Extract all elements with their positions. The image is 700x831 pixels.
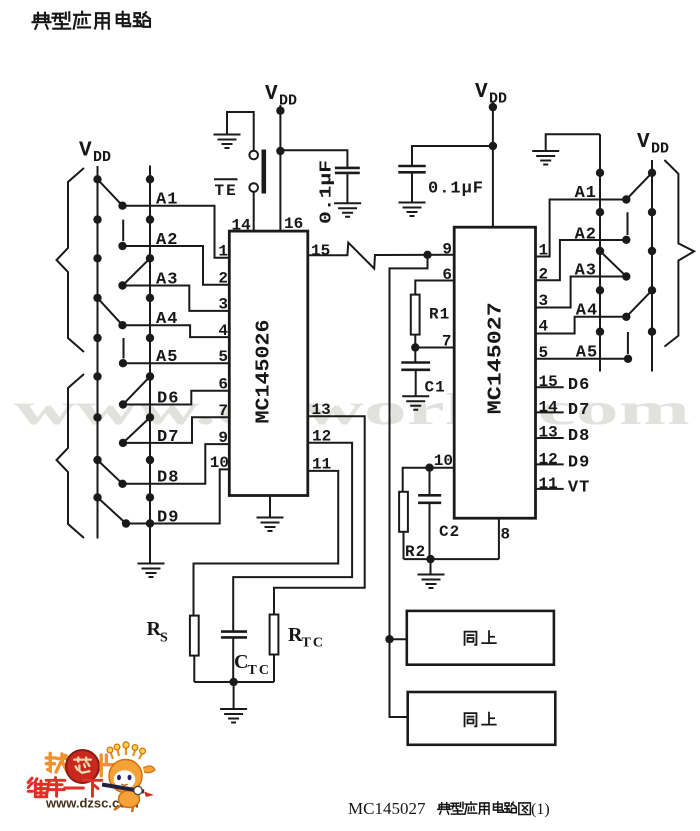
svg-text:VT: VT bbox=[568, 479, 590, 498]
svg-text:9: 9 bbox=[218, 429, 228, 447]
svg-text:V: V bbox=[637, 131, 650, 154]
svg-text:10: 10 bbox=[210, 454, 229, 472]
svg-text:A2: A2 bbox=[575, 225, 597, 244]
svg-text:8: 8 bbox=[501, 526, 511, 544]
svg-text:2: 2 bbox=[218, 270, 228, 288]
svg-text:(1): (1) bbox=[531, 801, 550, 818]
svg-text:15: 15 bbox=[539, 373, 558, 391]
svg-text:MC145027: MC145027 bbox=[485, 302, 507, 414]
svg-text:A5: A5 bbox=[156, 348, 178, 367]
svg-text:1: 1 bbox=[218, 243, 228, 261]
svg-text:14: 14 bbox=[539, 398, 559, 416]
svg-text:D9: D9 bbox=[157, 508, 179, 527]
svg-text:3: 3 bbox=[218, 296, 228, 314]
svg-text:1: 1 bbox=[539, 241, 549, 259]
svg-text:4: 4 bbox=[539, 318, 549, 336]
svg-text:TE: TE bbox=[215, 182, 238, 200]
svg-text:MC145026: MC145026 bbox=[253, 320, 275, 424]
svg-text:12: 12 bbox=[539, 451, 558, 469]
svg-text:C2: C2 bbox=[439, 523, 460, 541]
svg-text:MC145027: MC145027 bbox=[348, 799, 426, 818]
svg-text:7: 7 bbox=[218, 402, 228, 420]
svg-text:0.1μF: 0.1μF bbox=[428, 180, 484, 199]
svg-text:9: 9 bbox=[442, 241, 452, 259]
svg-text:A5: A5 bbox=[576, 344, 598, 363]
svg-text:4: 4 bbox=[218, 322, 228, 340]
svg-text:5: 5 bbox=[218, 348, 228, 366]
svg-text:3: 3 bbox=[539, 292, 549, 310]
svg-text:15: 15 bbox=[311, 242, 330, 260]
svg-text:5: 5 bbox=[539, 344, 549, 362]
svg-text:C: C bbox=[234, 651, 248, 673]
svg-text:D7: D7 bbox=[157, 428, 179, 447]
svg-text:A2: A2 bbox=[156, 231, 178, 250]
svg-text:D8: D8 bbox=[568, 427, 590, 446]
svg-text:6: 6 bbox=[218, 376, 228, 394]
svg-text:TC: TC bbox=[248, 663, 271, 678]
svg-text:0.1μF: 0.1μF bbox=[318, 160, 337, 224]
svg-text:A1: A1 bbox=[156, 191, 178, 210]
svg-text:A4: A4 bbox=[576, 302, 598, 321]
svg-text:S: S bbox=[160, 631, 168, 646]
svg-text:DD: DD bbox=[651, 141, 669, 158]
svg-text:C1: C1 bbox=[425, 379, 446, 397]
svg-text:D8: D8 bbox=[157, 469, 179, 488]
svg-text:TC: TC bbox=[302, 636, 325, 651]
svg-text:A3: A3 bbox=[156, 270, 178, 289]
svg-text:16: 16 bbox=[284, 215, 303, 233]
svg-text:A3: A3 bbox=[575, 261, 597, 280]
svg-text:D6: D6 bbox=[157, 389, 179, 408]
svg-text:11: 11 bbox=[539, 475, 558, 493]
svg-text:A1: A1 bbox=[575, 184, 597, 203]
svg-text:R2: R2 bbox=[405, 543, 426, 561]
svg-text:V: V bbox=[475, 81, 488, 104]
svg-text:DD: DD bbox=[93, 149, 111, 166]
svg-text:D6: D6 bbox=[568, 376, 590, 395]
svg-text:2: 2 bbox=[539, 265, 549, 283]
svg-text:D7: D7 bbox=[568, 401, 590, 420]
svg-text:A4: A4 bbox=[156, 310, 178, 329]
svg-text:14: 14 bbox=[232, 217, 252, 235]
svg-text:R1: R1 bbox=[429, 306, 450, 324]
svg-text:V: V bbox=[79, 140, 92, 163]
svg-text:D9: D9 bbox=[568, 453, 590, 472]
svg-text:V: V bbox=[265, 83, 278, 106]
